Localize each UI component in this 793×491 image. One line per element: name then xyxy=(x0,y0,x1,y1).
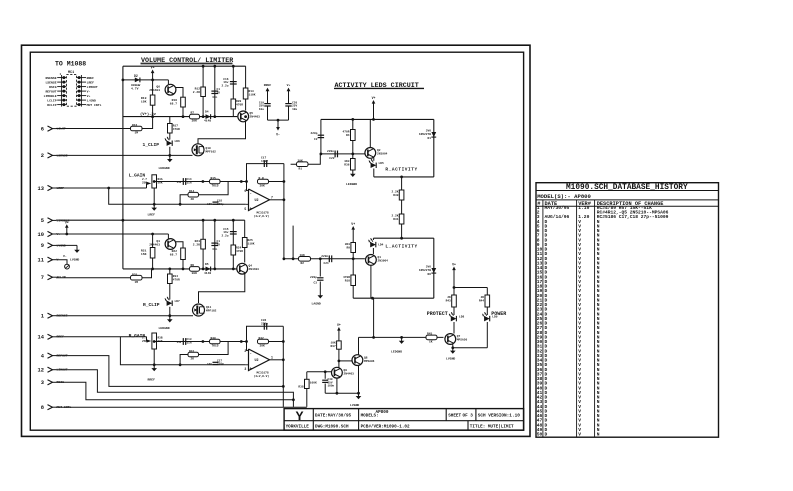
power symbol V+ near pin 10 xyxy=(66,226,68,234)
capacitor C20 10u xyxy=(285,103,291,105)
LED LD9 power xyxy=(486,307,488,315)
MC1 pin row 1: RSENSE / RREF xyxy=(57,77,66,79)
power symbol V- pin 11 xyxy=(56,260,67,264)
svg-text:V+: V+ xyxy=(372,96,376,100)
capacitor C18 220p xyxy=(213,201,219,203)
resistor R38 100K xyxy=(306,372,308,380)
svg-text:10: 10 xyxy=(38,232,44,238)
svg-text:47n: 47n xyxy=(212,96,217,99)
svg-text:(4+V,8-V): (4+V,8-V) xyxy=(254,374,270,378)
svg-text:14V: 14V xyxy=(176,181,181,184)
resistor R37 10K xyxy=(337,341,342,349)
svg-text:1M: 1M xyxy=(135,132,139,135)
resistor R8 30K xyxy=(190,267,200,272)
resistor R43 2K xyxy=(453,288,455,296)
resistor R31 2.2K xyxy=(401,200,403,214)
svg-text:1: 1 xyxy=(41,314,44,320)
svg-text:30K: 30K xyxy=(192,120,198,123)
ground LREF xyxy=(153,204,155,208)
wire R_ACT base line xyxy=(321,153,365,155)
svg-text:25K: 25K xyxy=(142,181,147,184)
svg-text:R43: R43 xyxy=(446,300,451,303)
svg-text:Y: Y xyxy=(296,409,304,424)
svg-text:LEDGND: LEDGND xyxy=(159,326,170,330)
resistor R2 10K xyxy=(299,257,311,262)
resistor R42 30K feedback xyxy=(258,339,269,344)
resistor R44 2K xyxy=(485,295,490,307)
svg-text:LIMOUT: LIMOUT xyxy=(87,85,98,89)
svg-text:2N3904: 2N3904 xyxy=(377,153,388,156)
svg-text:220n: 220n xyxy=(327,150,334,153)
database history table frame xyxy=(536,183,719,438)
capacitor C1 47n xyxy=(214,66,216,116)
svg-text:1_CLIP: 1_CLIP xyxy=(143,142,160,148)
svg-text:LD5: LD5 xyxy=(379,162,384,165)
svg-text:REFOUT: REFOUT xyxy=(45,89,56,93)
svg-text:1N5227B: 1N5227B xyxy=(419,269,431,272)
svg-text:4: 4 xyxy=(41,353,45,359)
LED LD4 L_ACT xyxy=(372,238,374,240)
FET Q11 xyxy=(193,304,205,316)
svg-text:1V: 1V xyxy=(217,92,221,95)
wire RREF pin 14 xyxy=(56,336,147,338)
wire REFOUT pin 4 route xyxy=(56,356,283,387)
svg-text:30K: 30K xyxy=(192,272,198,275)
svg-text:R23: R23 xyxy=(195,240,201,243)
svg-text:DATE:MAY/30/95: DATE:MAY/30/95 xyxy=(315,413,352,418)
svg-text:100K: 100K xyxy=(310,382,317,385)
svg-text:V+: V+ xyxy=(65,220,69,224)
svg-text:R45: R45 xyxy=(427,333,432,336)
wire pin 10 V+ feed xyxy=(56,233,168,235)
svg-text:R36: R36 xyxy=(344,164,349,167)
svg-text:MPSA06: MPSA06 xyxy=(364,360,375,363)
wire protect V+ tee xyxy=(454,287,487,289)
svg-text:3: 3 xyxy=(41,380,44,386)
ground LVGND pin 9 xyxy=(56,244,77,246)
resistor R7 30K xyxy=(190,114,200,119)
svg-text:D6: D6 xyxy=(428,273,432,276)
svg-text:220p: 220p xyxy=(261,323,268,326)
svg-text:10K: 10K xyxy=(300,254,305,257)
ground LEDGND protect xyxy=(400,336,403,339)
svg-text:D1: D1 xyxy=(428,137,432,140)
wire cap block join to V- xyxy=(268,119,289,121)
svg-text:7K15: 7K15 xyxy=(212,345,219,348)
svg-text:(V+)-3v: (V+)-3v xyxy=(140,112,157,117)
wire L_ACT bottom rail xyxy=(353,297,434,299)
svg-text:2.2u: 2.2u xyxy=(222,234,229,237)
svg-text:30K: 30K xyxy=(260,345,265,348)
svg-text:R_ACTIVITY: R_ACTIVITY xyxy=(385,168,417,173)
svg-text:LSENSE: LSENSE xyxy=(45,80,56,84)
wire L_ACT top rail xyxy=(373,237,433,239)
LED LD5 R_ACT xyxy=(373,158,375,161)
transistor Q1 L_ACT xyxy=(372,248,374,254)
diode D5 4148 xyxy=(206,267,211,272)
svg-text:RREF: RREF xyxy=(87,76,95,80)
svg-text:2N4403: 2N4403 xyxy=(149,89,160,92)
wire LD8 to Q7 xyxy=(453,322,455,334)
svg-text:5: 5 xyxy=(41,218,44,224)
LED LD6 1_CLIP xyxy=(169,133,171,140)
svg-text:100n: 100n xyxy=(328,384,335,387)
resistor R22 68.7 xyxy=(181,248,186,260)
svg-text:V+: V+ xyxy=(351,222,355,226)
transistor Q8 xyxy=(352,355,363,366)
wire U2A output net xyxy=(270,199,284,201)
wire (V+)-3v rail xyxy=(123,116,237,118)
svg-text:11n: 11n xyxy=(187,341,192,344)
svg-text:R35: R35 xyxy=(132,273,137,276)
transistor Q7 xyxy=(445,334,456,345)
wire R37 to Q9 xyxy=(338,349,340,368)
inner drawing border xyxy=(30,52,523,430)
svg-text:10u: 10u xyxy=(292,108,297,111)
resistor R20 470R xyxy=(231,99,236,109)
svg-text:1N5227B: 1N5227B xyxy=(419,133,431,136)
svg-text:30K: 30K xyxy=(260,185,265,188)
MC1 pin row 7: RCLIP / MUT CNTL xyxy=(57,104,66,106)
resistor R21 15K xyxy=(151,233,154,236)
op-amp U2B MC33178 xyxy=(249,349,270,371)
wire V+ top bus xyxy=(123,65,246,67)
svg-text:6: 6 xyxy=(41,126,44,132)
svg-text:12: 12 xyxy=(38,368,44,374)
wire R16 to rail xyxy=(142,118,153,129)
resistor R36 3K3 xyxy=(351,159,356,171)
svg-text:110K: 110K xyxy=(249,94,256,97)
svg-text:L/GND: L/GND xyxy=(87,98,96,102)
svg-text:V+: V+ xyxy=(452,263,456,267)
svg-text:C2: C2 xyxy=(314,138,318,141)
wire Q5 emitter to FET Q10 xyxy=(198,121,246,144)
resistor R9 3K3 xyxy=(352,257,355,260)
svg-text:220n: 220n xyxy=(321,255,328,258)
svg-text:R30: R30 xyxy=(393,194,398,197)
svg-text:D4: D4 xyxy=(205,111,209,114)
svg-text:16V: 16V xyxy=(207,203,212,206)
svg-text:2N4403: 2N4403 xyxy=(250,116,261,119)
svg-text:2.2K: 2.2K xyxy=(193,244,200,247)
transistor Q3 xyxy=(167,234,169,239)
svg-text:V+: V+ xyxy=(151,66,155,70)
wire D2 branch xyxy=(123,79,168,81)
svg-text:LVGND: LVGND xyxy=(70,258,79,262)
svg-text:9: 9 xyxy=(41,243,44,249)
transistor Q4 xyxy=(237,263,248,274)
transistor Q2 R_ACT xyxy=(365,148,376,159)
wire LCLIP pin 6 xyxy=(56,128,131,130)
svg-text:14: 14 xyxy=(38,335,45,341)
MC1 pin row 6: LCLIP / L/GND xyxy=(57,99,66,101)
svg-text:C21: C21 xyxy=(323,262,328,265)
resistor R40 7K15 xyxy=(210,339,221,344)
svg-text:10u: 10u xyxy=(259,108,264,111)
svg-text:50: 50 xyxy=(537,432,543,438)
svg-text:8: 8 xyxy=(41,405,44,411)
svg-text:R7: R7 xyxy=(191,112,195,115)
capacitor C37 220p xyxy=(213,361,219,363)
svg-text:U2: U2 xyxy=(255,199,259,203)
power symbol V+ mute xyxy=(338,329,340,341)
svg-text:15K: 15K xyxy=(141,100,147,104)
transistor Q6 xyxy=(167,80,169,84)
svg-text:R44: R44 xyxy=(479,300,484,303)
wire line A signal xyxy=(154,181,246,183)
svg-text:LD9: LD9 xyxy=(492,316,497,319)
svg-text:220p: 220p xyxy=(217,203,224,206)
svg-text:-: - xyxy=(250,192,252,196)
wire RREF branch down xyxy=(120,337,245,365)
svg-text:2: 2 xyxy=(41,153,44,159)
svg-text:68.7: 68.7 xyxy=(170,254,177,257)
resistor R45 1K xyxy=(426,335,437,340)
svg-text:R2: R2 xyxy=(301,262,305,265)
wire LREF branch down xyxy=(109,188,246,204)
svg-text:4.7V: 4.7V xyxy=(131,87,139,91)
svg-text:7K15: 7K15 xyxy=(212,185,219,188)
svg-text:D2: D2 xyxy=(134,74,138,78)
capacitor C19 10u xyxy=(264,103,270,105)
capacitor C16 2.2u xyxy=(232,66,234,116)
svg-text:R1: R1 xyxy=(299,167,303,170)
svg-text:V: V xyxy=(578,432,581,438)
resistor R1 10K xyxy=(297,162,309,167)
diode D2 zener 900mW 4.7V xyxy=(135,78,140,83)
svg-text:2N3904: 2N3904 xyxy=(378,260,389,263)
svg-text:AUG/14/96: AUG/14/96 xyxy=(545,214,570,220)
capacitor C40 100n xyxy=(324,372,326,379)
svg-text:C3: C3 xyxy=(314,282,318,285)
svg-text:LAGND: LAGND xyxy=(312,302,321,306)
svg-text:LD7: LD7 xyxy=(175,300,180,303)
wire Q7 emitter to gnd and LD9 xyxy=(452,344,454,348)
resistor R24 470R xyxy=(231,245,236,255)
wire Q2 collector to rail xyxy=(369,119,371,147)
resistor R30 2.2K xyxy=(401,177,403,190)
svg-text:Q3: Q3 xyxy=(156,240,160,243)
svg-text:2K: 2K xyxy=(191,358,195,361)
capacitor C36 220p xyxy=(263,323,265,330)
svg-text:R8: R8 xyxy=(191,264,195,267)
svg-text:LEDGND: LEDGND xyxy=(346,182,357,186)
diode D4 4148 xyxy=(206,114,211,119)
svg-text:470R: 470R xyxy=(236,104,243,107)
svg-text:2K: 2K xyxy=(191,198,195,201)
svg-text:LVGND: LVGND xyxy=(446,357,455,361)
svg-text:RSENSE: RSENSE xyxy=(45,76,56,80)
svg-text:2.2u: 2.2u xyxy=(222,84,229,87)
svg-text:LREF: LREF xyxy=(148,213,156,217)
wire aux vertical to L_ACT xyxy=(292,226,294,259)
svg-text:D: D xyxy=(545,432,548,438)
wire R1 input to R_ACT xyxy=(291,163,321,165)
svg-text:16V: 16V xyxy=(207,363,212,366)
wire Q9 base line left xyxy=(307,371,332,373)
svg-text:R4: R4 xyxy=(346,134,350,137)
svg-text:MPF102: MPF102 xyxy=(206,310,217,313)
wire U2B output net xyxy=(270,359,284,361)
MC1 pin row 2: LSENSE / LREF xyxy=(57,81,66,83)
svg-text:DWG:M1090.SCH: DWG:M1090.SCH xyxy=(315,425,349,430)
svg-text:30K: 30K xyxy=(298,160,303,163)
svg-text:25K: 25K xyxy=(142,340,147,343)
svg-text:V-: V- xyxy=(63,254,67,258)
svg-text:R37: R37 xyxy=(330,345,335,348)
wire Q4 emitter to FET Q11 xyxy=(199,274,245,304)
svg-text:110P: 110P xyxy=(261,160,268,163)
svg-text:-: - xyxy=(250,352,252,356)
transistor Q9 xyxy=(332,367,343,378)
wire R_ACT bottom rail xyxy=(373,169,375,177)
svg-text:220p: 220p xyxy=(311,132,318,135)
svg-text:7: 7 xyxy=(271,195,273,199)
svg-text:V+: V+ xyxy=(287,83,291,87)
svg-text:V-: V- xyxy=(87,89,91,93)
wire Q1 emitter xyxy=(370,265,372,298)
svg-text:R_CLIP: R_CLIP xyxy=(143,302,160,308)
outer drawing border xyxy=(22,45,531,436)
svg-text:C22: C22 xyxy=(329,157,334,160)
svg-text:R14: R14 xyxy=(189,190,194,193)
svg-text:LEDGND: LEDGND xyxy=(391,350,402,354)
svg-text:RCLIP: RCLIP xyxy=(57,275,66,279)
svg-text:220p: 220p xyxy=(217,363,224,366)
capacitor C14 11n xyxy=(182,178,184,185)
wire LSENSE pin 2 xyxy=(56,154,193,156)
svg-text:MUT CNTL: MUT CNTL xyxy=(87,103,102,107)
svg-text:4148: 4148 xyxy=(204,120,211,123)
power symbol V+ protect xyxy=(453,268,455,288)
LED LD8 protect xyxy=(453,307,455,315)
svg-text:11: 11 xyxy=(38,258,44,264)
svg-text:7: 7 xyxy=(41,275,44,281)
wire Q3 emitter to R22 xyxy=(176,242,183,248)
wire U2B inverting node feedback xyxy=(247,326,284,350)
svg-text:RREF: RREF xyxy=(148,378,156,382)
capacitor C21 220n xyxy=(328,255,330,262)
svg-text:LVGND: LVGND xyxy=(350,403,359,407)
svg-text:13: 13 xyxy=(38,186,44,192)
svg-text:PROTECT: PROTECT xyxy=(427,311,448,317)
wire Q6 emitter to R18 xyxy=(176,88,183,98)
svg-text:15K: 15K xyxy=(141,252,147,256)
wire RSENSE pin 1 xyxy=(56,315,193,317)
MC1 pin row 4: REFOUT / V- xyxy=(57,90,66,92)
power symbol V+ at D2 branch xyxy=(152,71,154,80)
wire protect drive line xyxy=(359,336,444,338)
svg-text:220p: 220p xyxy=(310,276,317,279)
svg-text:68.7: 68.7 xyxy=(170,103,177,106)
svg-text:R12: R12 xyxy=(195,88,201,91)
svg-text:2N4403: 2N4403 xyxy=(249,268,260,271)
resistor R34 470R xyxy=(169,269,171,274)
resistor R16 1M xyxy=(131,126,143,131)
svg-text:MODEL(S):- AP800: MODEL(S):- AP800 xyxy=(537,193,591,200)
capacitor C12 47n xyxy=(214,220,216,269)
capacitor C3 220p xyxy=(319,259,321,277)
resistor R23 2.2K xyxy=(202,220,204,269)
svg-text:470R: 470R xyxy=(173,128,180,131)
wire LD9 to emitter xyxy=(486,322,488,348)
svg-text:AP800: AP800 xyxy=(376,410,389,415)
svg-text:R31: R31 xyxy=(393,218,398,221)
svg-text:SCH VERSION:1.10: SCH VERSION:1.10 xyxy=(478,413,521,418)
resistor R18 68.7 xyxy=(181,97,186,107)
svg-text:LIMDBLE: LIMDBLE xyxy=(44,94,57,98)
svg-text:110K: 110K xyxy=(248,243,255,246)
svg-text:LCLIP: LCLIP xyxy=(47,98,56,102)
table column lines xyxy=(542,200,544,437)
svg-text:MPF102: MPF102 xyxy=(206,151,217,154)
svg-text:R22: R22 xyxy=(172,250,178,253)
svg-text:R.B: R.B xyxy=(259,177,264,180)
wire Q9 base tee to Q8 xyxy=(339,360,352,362)
svg-text:R42: R42 xyxy=(259,337,264,340)
svg-text:RCLIP: RCLIP xyxy=(47,103,56,107)
svg-text:R18: R18 xyxy=(172,99,178,102)
wire RCLIP pin 7 xyxy=(56,277,131,279)
svg-text:RSIG: RSIG xyxy=(49,85,57,89)
svg-text:V+: V+ xyxy=(87,94,91,98)
wire pot R3B to line xyxy=(154,341,246,343)
resistor R35 1M xyxy=(131,275,143,280)
svg-text:LEDGND: LEDGND xyxy=(159,166,170,170)
power symbol V+ R_ACT xyxy=(373,102,375,120)
FET Q10 xyxy=(192,144,204,156)
svg-text:TITLE: MUTE|LIMIT: TITLE: MUTE|LIMIT xyxy=(470,425,514,430)
wire pot top to line A xyxy=(153,171,155,175)
wire Q8 collector xyxy=(358,337,360,355)
wire R35 to R rail xyxy=(142,270,152,278)
wire pot R3B bottom to RREF gnd xyxy=(153,349,155,365)
ground LEDGND R_ACT xyxy=(352,170,354,174)
svg-text:470R: 470R xyxy=(236,250,243,253)
resistor R12 2.2K xyxy=(202,66,204,116)
wire pot bottom to LREF gnd xyxy=(153,188,155,204)
ground RREF xyxy=(153,365,155,369)
svg-text:14V: 14V xyxy=(176,341,181,344)
capacitor C15 2.2u xyxy=(232,220,234,269)
svg-text:R38: R38 xyxy=(298,386,303,389)
ground LEDGND below LD7 xyxy=(169,307,171,316)
resistor R4 470R xyxy=(351,130,356,141)
svg-text:R41: R41 xyxy=(189,350,194,353)
svg-text:47n: 47n xyxy=(212,248,217,251)
ground LVGND below Q7 xyxy=(452,348,454,351)
svg-text:N: N xyxy=(597,432,600,438)
title block frame xyxy=(284,409,523,431)
node top bus junctions xyxy=(202,65,205,68)
wire MUT CNTL pin 8 route xyxy=(56,406,307,408)
capacitor C13 11n xyxy=(182,338,184,345)
capacitor C22 220n xyxy=(334,151,336,158)
capacitor C17 xyxy=(263,160,265,167)
capacitor C2 220p xyxy=(320,119,322,153)
wire U2A inverting node up to feedback xyxy=(247,164,284,191)
svg-text:3: 3 xyxy=(244,367,246,371)
svg-text:LREF: LREF xyxy=(87,80,95,84)
svg-text:R15: R15 xyxy=(211,177,216,180)
wire L_ACT to protect feed xyxy=(373,298,375,337)
svg-text:LD8: LD8 xyxy=(459,316,464,319)
transistor Q5 xyxy=(238,111,249,122)
svg-text:11n: 11n xyxy=(187,181,192,184)
svg-text:1K: 1K xyxy=(429,341,433,344)
power symbol V+ L_ACT xyxy=(352,228,354,233)
MC1 pin row 5: LIMDBLE / V+ xyxy=(57,95,66,97)
